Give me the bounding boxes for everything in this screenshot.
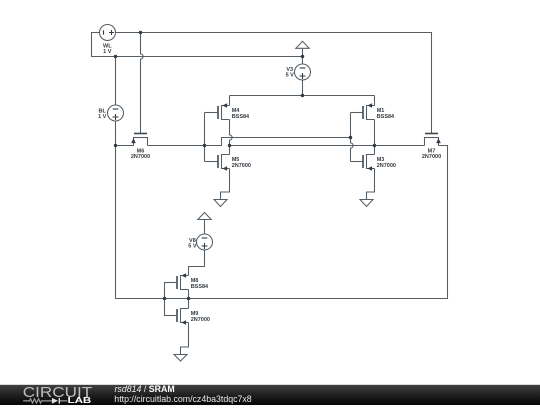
svg-text:1 V: 1 V bbox=[103, 49, 112, 55]
wire node A: M6 drain jog cross-wire bbox=[148, 138, 351, 146]
node V3 top junction bbox=[301, 55, 304, 58]
wire M4-M5 drain line with hop bbox=[230, 120, 233, 155]
node left drain node B junction bbox=[228, 144, 231, 147]
svg-text:5 V: 5 V bbox=[188, 243, 197, 249]
svg-text:rsd814 / SRAM: rsd814 / SRAM bbox=[115, 384, 175, 394]
node M8M9 drain junction bbox=[187, 297, 190, 300]
transistor M3 2N7000 bbox=[351, 154, 396, 171]
wire WL left loop to V3 top bbox=[92, 33, 303, 57]
svg-text:2N7000: 2N7000 bbox=[232, 163, 251, 169]
wire top rail WL to M7 gate bbox=[116, 33, 432, 134]
wire V3 VCC stub bbox=[302, 48, 304, 64]
ground below M5 bbox=[214, 200, 227, 207]
wire BL top segment bbox=[115, 57, 117, 106]
transistor M8 BSS84 bbox=[165, 273, 210, 290]
ground below M9 bbox=[174, 355, 187, 362]
svg-text:2N7000: 2N7000 bbox=[377, 163, 396, 169]
transistor M7 2N7000 bbox=[422, 134, 441, 161]
wire V8 to M8 jog bbox=[189, 250, 205, 276]
svg-text:5 V: 5 V bbox=[286, 73, 295, 79]
wire V3 bottom stub bbox=[302, 80, 304, 96]
node right drain node B junction bbox=[373, 144, 376, 147]
node M8M9 gate junction bbox=[163, 297, 166, 300]
svg-text:2N7000: 2N7000 bbox=[422, 154, 441, 160]
voltage source V3 bbox=[286, 64, 311, 80]
wire M1 source riser bbox=[374, 96, 376, 106]
wire M6 gate line with hop over y56 bbox=[141, 33, 144, 134]
wire left gate line bbox=[204, 113, 206, 162]
logo play symbol bbox=[52, 398, 58, 404]
transistor M5 2N7000 bbox=[205, 154, 251, 171]
svg-text:http://circuitlab.com/cz4ba3td: http://circuitlab.com/cz4ba3tdqc7x8 bbox=[114, 394, 252, 404]
transistor M4 BSS84 bbox=[205, 103, 251, 120]
wire node B horizontal bbox=[230, 145, 425, 147]
wire M8 drain to rail bbox=[188, 290, 190, 299]
wire M9 drain riser bbox=[188, 299, 190, 309]
transistor M9 2N7000 bbox=[165, 308, 210, 325]
transistor M1 BSS84 bbox=[351, 103, 396, 120]
wire V8 VCC stub bbox=[204, 220, 206, 235]
wire M9 source to ground bbox=[181, 323, 189, 355]
svg-text:BSS84: BSS84 bbox=[377, 114, 395, 120]
VCC arrow above V8 bbox=[198, 213, 211, 220]
wire BL bottom + bottom rail + right riser bbox=[116, 121, 448, 299]
svg-text:2N7000: 2N7000 bbox=[131, 154, 150, 160]
wire M5 source to ground bbox=[221, 169, 230, 200]
voltage source BL bbox=[98, 105, 123, 121]
wire M4 source riser bbox=[229, 96, 231, 106]
svg-text:BSS84: BSS84 bbox=[232, 114, 250, 120]
node right gate node A junction bbox=[349, 136, 352, 139]
wire M6 source link bbox=[116, 145, 134, 147]
voltage source V8 bbox=[188, 234, 212, 250]
node left gate node A junction bbox=[203, 144, 206, 147]
node VDD junction bbox=[301, 94, 304, 97]
logo wire + resistor zigzag bbox=[23, 399, 67, 403]
transistor M6 2N7000 bbox=[131, 134, 150, 161]
wire M8 M9 gate line bbox=[165, 283, 178, 316]
VCC arrow above V3 bbox=[296, 41, 309, 48]
node BL/M6 junction bbox=[114, 144, 117, 147]
wire right gate line with hop bbox=[351, 113, 354, 162]
wire VDD rail2 bbox=[230, 95, 375, 97]
node BL/WL-loop junction bbox=[114, 55, 117, 58]
svg-text:BSS84: BSS84 bbox=[191, 284, 209, 290]
wire M1-M3 drain line bbox=[374, 120, 376, 155]
wire M3 source to ground bbox=[367, 169, 375, 200]
svg-text:LAB: LAB bbox=[68, 396, 92, 405]
node rail/M6-gate junction bbox=[139, 31, 142, 34]
svg-text:2N7000: 2N7000 bbox=[191, 317, 210, 323]
voltage source WL bbox=[100, 25, 116, 56]
ground below M3 bbox=[360, 200, 373, 207]
footer bar bbox=[0, 385, 540, 405]
svg-text:1 V: 1 V bbox=[98, 114, 107, 120]
